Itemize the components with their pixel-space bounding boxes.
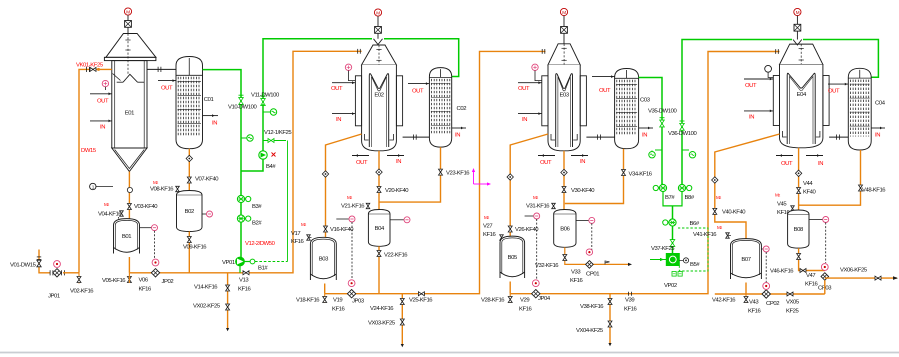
gauge PI on E01 xyxy=(102,80,108,90)
svg-text:M2: M2 xyxy=(347,195,352,200)
label IN C02 xyxy=(455,133,460,139)
svg-text:V18-KF16: V18-KF16 xyxy=(296,298,320,304)
pipe green C03 top to V35 chain xyxy=(639,78,662,151)
sight glass B08 xyxy=(809,217,829,264)
svg-text:JP04: JP04 xyxy=(538,296,551,302)
svg-text:IN: IN xyxy=(336,117,341,123)
wire C03 IN arrow xyxy=(639,127,653,130)
wire E04 bottom IN arrow xyxy=(806,154,823,157)
label V06 KF16 xyxy=(139,278,153,293)
svg-text:KF16: KF16 xyxy=(332,307,346,313)
svg-text:IN: IN xyxy=(875,133,880,139)
valve steam tick at E03 inlet xyxy=(542,49,545,54)
svg-text:VX03-KF25: VX03-KF25 xyxy=(368,321,396,327)
svg-text:IN: IN xyxy=(642,133,647,139)
pipe transfer line B01/B02 to E02 riser xyxy=(129,51,361,272)
evaporator E02 xyxy=(355,45,402,151)
trap on V10 line xyxy=(241,135,253,141)
wire E03 bottom IN arrow xyxy=(571,154,588,157)
vent M01 on E01 xyxy=(124,8,131,27)
svg-text:C04: C04 xyxy=(875,101,886,107)
label M2 xyxy=(153,180,158,185)
sight glass B05 xyxy=(525,213,540,282)
label V12-2/DW50 xyxy=(245,241,276,247)
valve V46-KF16 xyxy=(797,254,801,260)
evaporator E04 xyxy=(773,44,829,148)
label IN E03 bottom xyxy=(580,159,585,165)
svg-text:V17: V17 xyxy=(291,231,300,237)
valve B7# xyxy=(653,184,666,191)
valve V30-KF40 xyxy=(562,187,566,193)
svg-text:V45: V45 xyxy=(777,202,787,208)
valve V17-KF16 xyxy=(291,231,312,245)
svg-text:OUT: OUT xyxy=(781,161,793,167)
svg-text:IN: IN xyxy=(100,125,105,131)
svg-text:C03: C03 xyxy=(640,98,651,104)
tank B01 xyxy=(114,219,140,254)
valve V48-KF16 xyxy=(859,185,863,191)
svg-text:V09-KF16: V09-KF16 xyxy=(183,245,207,251)
pipe C02 condensate to manifold xyxy=(379,147,441,202)
pipe B06 bottom to manifold xyxy=(565,247,632,266)
wire E02 OUT arrow xyxy=(332,81,355,84)
valve diamond on B07 feed xyxy=(712,177,718,183)
svg-text:B2#: B2# xyxy=(252,221,262,227)
wire C01 OUT arrow xyxy=(158,79,176,82)
svg-text:C02: C02 xyxy=(457,106,467,112)
valve VX04-KF25 xyxy=(608,321,612,327)
valve B8# xyxy=(678,184,691,191)
pump VP01 xyxy=(236,257,245,273)
pipe E04 center outlet to B08 xyxy=(798,148,800,210)
label JP03 xyxy=(352,299,365,305)
label JP01 xyxy=(48,294,60,300)
valve VX06-KF25 xyxy=(875,276,881,280)
pipe E04 left outlet to B07 xyxy=(715,134,780,239)
instrument LI1 xyxy=(90,183,113,189)
valve V13 xyxy=(243,271,249,275)
valve B2# xyxy=(237,215,250,222)
label OUT C02 xyxy=(412,88,424,94)
svg-text:V43: V43 xyxy=(749,300,759,306)
valve V12-1/KF25 xyxy=(263,139,286,143)
label V07-KF40 xyxy=(195,177,219,183)
svg-text:B06: B06 xyxy=(560,226,570,232)
pipe C01 condensate to B02 xyxy=(188,149,190,191)
svg-text:V41-KF16: V41-KF16 xyxy=(693,232,717,238)
valve V18-KF16 xyxy=(323,294,327,303)
label VP02 xyxy=(664,283,677,289)
sight glass B06 xyxy=(576,217,595,250)
svg-text:VX06-KF25: VX06-KF25 xyxy=(840,268,868,274)
wire E03 OUT arrow xyxy=(518,81,542,84)
svg-text:V35-DW100: V35-DW100 xyxy=(648,109,677,115)
label V28-KF16 xyxy=(481,298,505,304)
svg-text:V40-KF40: V40-KF40 xyxy=(722,210,746,216)
tank B05 xyxy=(500,236,525,278)
label V10-DW100 xyxy=(228,105,257,111)
label IN C01 xyxy=(212,120,217,126)
svg-text:V24-KF16: V24-KF16 xyxy=(370,306,394,312)
tank B07 xyxy=(731,239,762,279)
svg-text:B8#: B8# xyxy=(685,195,695,201)
label V36-DW100 xyxy=(668,131,697,137)
svg-text:M2: M2 xyxy=(104,202,109,207)
valve diamond on B03 feed xyxy=(322,171,328,177)
pipe B01 bottom to JP02 line xyxy=(128,257,130,273)
valve V14-KF16 xyxy=(226,285,230,291)
valve on C01 drain xyxy=(186,155,192,161)
svg-text:E03: E03 xyxy=(559,92,569,98)
label V26-KF40 xyxy=(515,227,539,233)
pipe B03 bottom to manifold xyxy=(324,284,326,294)
svg-text:V30-KF40: V30-KF40 xyxy=(571,188,595,194)
evaporator E01 xyxy=(104,34,155,172)
svg-text:V13: V13 xyxy=(239,278,249,284)
pipe C04 condensate to B08 feed xyxy=(799,150,861,205)
valve diamond on B08 feed xyxy=(795,170,801,176)
tank B08 xyxy=(788,210,809,248)
svg-text:B3#: B3# xyxy=(252,204,262,210)
valve VX05-KF25 xyxy=(787,292,793,296)
pipe E01 bottom to B01 xyxy=(128,172,130,219)
label B5# xyxy=(679,258,700,268)
sight glass B04 xyxy=(390,217,410,223)
svg-text:V44: V44 xyxy=(803,181,813,187)
label M2 V27 xyxy=(484,215,489,220)
valve V05-KF16 xyxy=(102,273,131,284)
valve V23-KF16 xyxy=(439,169,443,175)
svg-text:V01-DW15: V01-DW15 xyxy=(10,263,37,269)
valve VK01-KF25 xyxy=(87,67,100,72)
valve V04-KF16 xyxy=(98,211,123,219)
pump JP02 xyxy=(151,259,159,277)
label M2 V40 xyxy=(716,195,721,200)
valve diamond on B06 feed xyxy=(561,169,567,175)
label V16-KF40 xyxy=(330,227,354,233)
pipe B4 to main green xyxy=(241,159,263,171)
valve diamond on B04 feed xyxy=(376,169,382,175)
svg-text:V08-KF16: V08-KF16 xyxy=(150,187,174,193)
label VX04-KF25 xyxy=(576,328,604,334)
svg-text:E01: E01 xyxy=(125,111,134,117)
svg-text:B6#: B6# xyxy=(690,221,700,227)
label V44 KF40 xyxy=(803,181,817,196)
label B1# xyxy=(258,266,268,272)
condenser C03 xyxy=(615,69,651,149)
svg-text:OUT: OUT xyxy=(412,88,424,94)
pipe B02 bottom drain xyxy=(188,232,190,273)
svg-text:M2: M2 xyxy=(484,215,489,220)
svg-text:V02-KF16: V02-KF16 xyxy=(70,289,94,295)
svg-text:CP02: CP02 xyxy=(766,301,779,307)
svg-text:V34-KF16: V34-KF16 xyxy=(629,172,653,178)
svg-text:KF16: KF16 xyxy=(238,287,252,293)
svg-text:IN: IN xyxy=(749,114,754,120)
valve V27-KF16 xyxy=(483,224,503,241)
label B7# xyxy=(665,195,675,201)
valve V31-KF16 xyxy=(526,203,555,209)
label V29 KF16 xyxy=(519,298,533,313)
svg-text:C01: C01 xyxy=(204,97,214,103)
label V43 KF16 xyxy=(748,300,762,315)
svg-text:OUT: OUT xyxy=(331,86,343,92)
label B3# xyxy=(252,204,262,210)
svg-text:V39: V39 xyxy=(625,298,634,304)
svg-text:E04: E04 xyxy=(797,92,807,98)
pipe green merge xyxy=(662,150,682,254)
wire E01 OUT arrow xyxy=(90,92,112,95)
valve V07-KF40 xyxy=(187,177,191,183)
label V02-KF16 xyxy=(70,289,94,295)
svg-text:V32-KF16: V32-KF16 xyxy=(535,263,559,269)
valve V37-KF25 xyxy=(670,240,675,247)
label V33 KF16 xyxy=(570,270,584,285)
label JP04 xyxy=(538,296,551,302)
pump JP04 xyxy=(532,280,540,298)
label CP02 xyxy=(766,301,779,307)
svg-text:VX04-KF25: VX04-KF25 xyxy=(576,328,604,334)
label B6# xyxy=(690,221,700,227)
valve V47-KF16 xyxy=(800,269,806,273)
label V24-KF16 xyxy=(370,306,394,312)
svg-text:DW15: DW15 xyxy=(81,148,97,154)
svg-text:B04: B04 xyxy=(375,226,385,232)
wire E02 IN arrow xyxy=(332,112,355,115)
pipe green C01 top to valve chain xyxy=(203,70,242,258)
pipe E04 to C04 xyxy=(829,135,848,140)
label V37-KF25 xyxy=(651,246,675,252)
sight glass B02 xyxy=(202,211,213,217)
label VX05 KF25 xyxy=(786,300,800,315)
valve V24-KF16 xyxy=(400,299,404,305)
svg-text:M2: M2 xyxy=(716,195,721,200)
condenser C01 xyxy=(176,57,213,149)
label V35-DW100 xyxy=(648,109,677,115)
valve V45-KF16 xyxy=(777,202,794,217)
svg-text:V12-2/DW50: V12-2/DW50 xyxy=(245,241,276,247)
svg-text:KF16: KF16 xyxy=(291,239,305,245)
label B4# xyxy=(266,164,276,170)
valve diamond on B05 feed xyxy=(507,174,513,180)
label V03-KF40 xyxy=(134,204,158,210)
valve VX02-KF25 xyxy=(226,304,230,310)
svg-text:V03-KF40: V03-KF40 xyxy=(134,204,158,210)
svg-text:VP02: VP02 xyxy=(664,283,677,289)
svg-text:M: M xyxy=(562,10,566,15)
label DW15 xyxy=(81,148,97,154)
svg-text:V14-KF16: V14-KF16 xyxy=(194,285,218,291)
label V22-KF16 xyxy=(384,253,408,259)
valve V22-KF16 xyxy=(377,251,381,257)
evaporator E03 xyxy=(542,44,587,151)
svg-text:M2: M2 xyxy=(533,195,538,200)
svg-text:V33: V33 xyxy=(571,270,581,276)
instrument circle on B01 feed xyxy=(127,187,132,192)
label V01-DW15 xyxy=(10,263,37,269)
svg-text:B4#: B4# xyxy=(266,164,276,170)
label OUT E03 bottom xyxy=(540,160,552,166)
label V25-KF16 xyxy=(409,298,433,304)
label V40-KF40 xyxy=(722,210,746,216)
svg-text:B03: B03 xyxy=(319,257,329,263)
svg-text:KF16: KF16 xyxy=(139,287,153,293)
svg-text:KF16: KF16 xyxy=(805,282,819,288)
svg-text:VX02-KF25: VX02-KF25 xyxy=(193,304,221,310)
wire E04 IN arrow xyxy=(744,110,773,113)
condenser C02 xyxy=(429,68,466,148)
vent M04 on E04 xyxy=(794,8,801,31)
valve V40-KF40 xyxy=(713,208,717,214)
valve V26-KF40 xyxy=(508,226,512,232)
valve V08-KF16 xyxy=(150,186,179,192)
pump CP01 xyxy=(586,249,594,268)
gauge on E04 xyxy=(765,65,774,77)
svg-text:B1#: B1# xyxy=(258,266,268,272)
pipe B07 bottom to manifold xyxy=(745,283,747,295)
valve B6# xyxy=(663,219,676,226)
pipe manifold section4 xyxy=(715,280,825,294)
label V09-KF16 xyxy=(183,245,207,251)
label M2 V45 xyxy=(775,193,780,198)
valve V42-KF16 xyxy=(744,294,748,303)
pipe E02 left outlet to B03 xyxy=(326,134,362,238)
svg-text:V31-KF16: V31-KF16 xyxy=(526,203,550,209)
wire E02 bottom OUT arrow xyxy=(352,154,369,157)
node B1# xyxy=(244,259,255,264)
svg-text:V47: V47 xyxy=(806,273,815,279)
condenser C04 xyxy=(848,68,885,150)
svg-text:IN: IN xyxy=(818,161,823,167)
pipe B05 bottom to manifold xyxy=(509,282,511,294)
valve V36-DW100 xyxy=(680,121,685,130)
svg-text:V12-1/KF25: V12-1/KF25 xyxy=(264,130,292,136)
wire E03 bottom OUT arrow xyxy=(538,154,555,157)
vent M03 on E03 xyxy=(560,8,567,33)
label V32-KF16 xyxy=(535,263,559,269)
valve V16-KF40 xyxy=(324,226,328,232)
label OUT C01 xyxy=(161,85,173,91)
svg-text:B01: B01 xyxy=(122,234,131,240)
label V18-KF16 xyxy=(296,298,320,304)
tank B02 xyxy=(177,191,203,232)
svg-text:V04-KF16: V04-KF16 xyxy=(98,212,122,218)
svg-text:B5#: B5# xyxy=(690,262,700,268)
valve V39-KF16 xyxy=(629,292,632,296)
svg-text:OUT: OUT xyxy=(540,160,552,166)
label OUT E04 bottom xyxy=(781,161,793,167)
wire C02 OUT arrow xyxy=(408,82,429,85)
label VK01-KF25 xyxy=(76,63,104,69)
label IN E02 bottom xyxy=(396,159,401,165)
wire E04 bottom OUT arrow xyxy=(776,154,793,157)
svg-text:V25-KF16: V25-KF16 xyxy=(409,298,433,304)
pipe green bypass loop xyxy=(255,141,288,262)
label VX03-KF25 xyxy=(368,321,396,327)
trap on V36 line xyxy=(682,150,696,158)
valve V28-KF16 xyxy=(508,294,512,303)
wire C04 IN arrow xyxy=(871,127,885,130)
svg-text:JP03: JP03 xyxy=(352,299,365,305)
wire C01 IN arrow xyxy=(203,114,219,117)
pump exhaust block xyxy=(650,254,679,266)
label CP03 xyxy=(818,286,832,292)
svg-text:V21-KF16: V21-KF16 xyxy=(341,203,365,209)
pipe E03 left outlet to B05 xyxy=(510,134,548,237)
label IN E03 xyxy=(522,117,527,123)
svg-text:CP01: CP01 xyxy=(586,272,599,278)
label V13 KF16 xyxy=(238,278,252,293)
svg-text:V46-KF16: V46-KF16 xyxy=(770,269,794,275)
connector arrows magenta xyxy=(472,168,491,186)
label V47 KF16 xyxy=(805,273,819,288)
label M2 V17 xyxy=(301,222,306,227)
svg-text:OUT: OUT xyxy=(97,98,109,104)
svg-text:V42-KF16: V42-KF16 xyxy=(712,298,736,304)
valve V20-KF40 xyxy=(377,187,381,193)
pipe JP01 to riser xyxy=(63,272,79,274)
svg-text:V10-DW100: V10-DW100 xyxy=(228,105,257,111)
svg-text:M2: M2 xyxy=(775,193,780,198)
label V11-DW100 xyxy=(251,93,280,99)
sight glass B01 xyxy=(140,225,158,258)
svg-text:B02: B02 xyxy=(185,209,194,215)
label V34-KF16 xyxy=(629,172,653,178)
svg-text:IN: IN xyxy=(396,159,401,165)
svg-text:B05: B05 xyxy=(508,255,518,261)
svg-text:KF16: KF16 xyxy=(748,309,762,315)
label OUT E02 bottom xyxy=(356,160,368,166)
label V12-1/KF25 xyxy=(264,130,292,136)
pipe manifold section3 to E04 riser xyxy=(510,52,779,294)
valve V21-KF16 xyxy=(341,203,370,209)
label V38-KF16 xyxy=(580,304,604,310)
vent M02 on E02 xyxy=(374,9,381,33)
svg-text:V20-KF40: V20-KF40 xyxy=(385,188,409,194)
svg-text:JP01: JP01 xyxy=(48,294,60,300)
tank B03 xyxy=(310,237,336,280)
label IN E04 xyxy=(749,114,754,120)
label exhaust xyxy=(672,272,682,277)
svg-text:KF25: KF25 xyxy=(786,309,800,315)
label JP02 xyxy=(162,279,174,285)
svg-text:V16-KF40: V16-KF40 xyxy=(330,227,354,233)
svg-text:VP01: VP01 xyxy=(222,260,235,266)
svg-text:IN: IN xyxy=(580,159,585,165)
label VX02-KF25 xyxy=(193,304,221,310)
pipe E03 to C03 xyxy=(586,135,614,140)
svg-text:KF16: KF16 xyxy=(483,232,497,238)
valve V02-KF16 xyxy=(77,273,81,284)
svg-text:JP02: JP02 xyxy=(162,279,174,285)
svg-text:M2: M2 xyxy=(301,222,306,227)
svg-text:B08: B08 xyxy=(794,227,804,233)
label V14-KF16 xyxy=(194,285,218,291)
pipe blowdown VX04 xyxy=(608,294,611,347)
label M2 V04 xyxy=(104,202,109,207)
pipe green V11 riser to E02 vent xyxy=(263,39,372,104)
label VP01 xyxy=(222,260,235,266)
label IN E04 bottom xyxy=(818,161,823,167)
gauge on E02 xyxy=(345,64,355,80)
pump B4# xyxy=(259,104,276,159)
pump CP02 xyxy=(762,283,770,299)
wire C03 OUT arrow xyxy=(592,75,615,78)
pipe E03 center outlet to B06 xyxy=(563,151,565,210)
pipe manifold section2 to E03 riser xyxy=(325,51,546,293)
svg-text:VK01-KF25: VK01-KF25 xyxy=(76,63,104,69)
svg-text:V29: V29 xyxy=(520,298,529,304)
